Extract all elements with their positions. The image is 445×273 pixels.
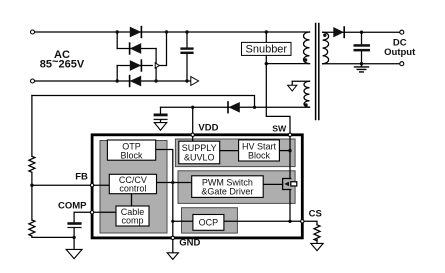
junction output cap bottom	[360, 62, 363, 65]
pin FB	[90, 184, 93, 187]
wire primary bottom	[266, 63, 309, 65]
wire secondary bottom	[323, 63, 402, 65]
wire CC/CV output to PWM	[157, 182, 192, 184]
ground VDD cap	[154, 123, 166, 131]
svg-text:COMP: COMP	[58, 201, 87, 212]
node bridge row3 connection arrow	[155, 63, 159, 68]
transistor Q1 arrow	[284, 182, 289, 187]
wire output cap bottom lead	[361, 51, 363, 63]
svg-text:OCP: OCP	[199, 218, 219, 228]
capacitor C1 bulk	[180, 47, 193, 49]
diode D6 VDD rectifier	[228, 102, 239, 113]
wire secondary top	[323, 31, 402, 33]
wire FB node down to R2	[31, 185, 33, 220]
pin COMP	[90, 211, 93, 214]
resistor R2 lower divider	[29, 220, 35, 236]
node DC output top terminal	[400, 30, 404, 34]
wire VDD pin to SUPPLY	[192, 137, 194, 142]
wire bridge left vertical bottom pair	[116, 66, 118, 82]
junction output cap top	[360, 31, 363, 34]
block PWM section panel	[178, 171, 295, 204]
wire bulk capacitor top lead	[186, 32, 188, 47]
op-amp U1 controller outline	[92, 135, 302, 238]
snubber block	[242, 42, 292, 55]
ground GND pin	[167, 253, 178, 260]
block PWM switch gate driver	[192, 176, 264, 198]
junction row4 at bulk cap	[185, 79, 188, 82]
junction COMP cap bottom	[72, 236, 75, 239]
diode D1 bridge top	[130, 27, 141, 38]
transformer T1 secondary winding	[323, 32, 329, 64]
svg-text:FB: FB	[75, 172, 88, 183]
node auxiliary ground bus arrow	[288, 85, 297, 91]
resistor R1 upper divider	[29, 156, 35, 172]
block SUPPLY UVLO	[179, 141, 220, 164]
capacitor C2 output	[354, 44, 371, 47]
junction snubber bottom / primary bottom / SW	[265, 62, 268, 65]
block cable comp	[116, 206, 149, 226]
diode D3 bridge third	[130, 60, 141, 71]
wire OCP left to internal bus	[173, 220, 193, 222]
transformer secondary polarity dot	[323, 34, 326, 37]
wire bridge row2-to-row4 vertical	[155, 49, 157, 82]
ground left divider	[66, 249, 82, 258]
ground CS resistor	[311, 243, 323, 250]
svg-text:85~265V: 85~265V	[40, 56, 85, 70]
transformer T1 auxiliary winding	[304, 81, 310, 107]
wire bulk capacitor bottom lead	[186, 54, 188, 81]
junction internal bus at OCP wire	[171, 220, 174, 223]
svg-text:control: control	[119, 184, 146, 194]
wire FB to pin	[32, 184, 90, 186]
wire R1 to FB node	[31, 173, 33, 186]
junction internal bus at CC/CV wire	[171, 181, 174, 184]
block left analog section panel	[100, 141, 167, 234]
svg-text:Output: Output	[384, 47, 416, 58]
diode D2 bridge second	[130, 43, 141, 54]
junction row1 at DC+ drop	[165, 30, 168, 33]
transformer primary polarity dot	[304, 58, 307, 61]
block labels	[119, 141, 277, 227]
wire VDD cap top lead	[160, 107, 162, 113]
svg-text:Snubber: Snubber	[246, 44, 288, 56]
node primary ground bus arrow	[191, 77, 199, 86]
wire AC top line to bridge and primary	[35, 31, 310, 33]
block OCP section panel	[182, 208, 238, 233]
svg-text:VDD: VDD	[198, 122, 218, 133]
wire bridge row2 horizontal	[117, 48, 156, 50]
transformer T1 primary winding	[304, 32, 310, 64]
capacitor C3 VDD	[154, 114, 168, 117]
wire SW net to MOSFET drain	[289, 137, 291, 179]
wire bridge row3 horizontal	[117, 65, 152, 67]
junction AC top at bridge	[116, 30, 119, 33]
pin CS	[301, 220, 304, 223]
wire AC bottom line	[35, 80, 191, 82]
svg-text:comp: comp	[121, 216, 143, 226]
svg-text:&UVLO: &UVLO	[184, 152, 215, 162]
wire FB pin inside	[92, 184, 109, 186]
junction aux line at rail	[253, 106, 256, 109]
wire OCP output to CS pin	[224, 220, 302, 222]
junction AC bottom at bridge	[116, 79, 119, 82]
block CC/CV control	[109, 174, 156, 193]
node AC input top terminal	[31, 30, 35, 34]
block HV start	[239, 140, 280, 161]
wire left divider top	[31, 96, 33, 157]
transformer core	[315, 24, 317, 120]
junction MOSFET source at OCP wire	[288, 220, 291, 223]
wire COMP pin inside	[92, 211, 116, 213]
block OCP	[193, 215, 224, 231]
wire GND pin drop	[172, 240, 174, 253]
wire auxiliary bottom line	[161, 106, 310, 108]
pin GND	[171, 236, 174, 239]
wire HV start to SW net	[279, 150, 290, 152]
wire COMP pin to cap	[74, 212, 90, 222]
svg-text:&Gate Driver: &Gate Driver	[201, 187, 253, 197]
svg-text:Block: Block	[248, 150, 271, 160]
pin SW	[288, 133, 291, 136]
wire cable comp to CC/CV	[131, 194, 133, 206]
wire output cap top lead	[361, 32, 363, 44]
wire snubber vertical	[265, 32, 267, 64]
transistor Q1 body loop	[291, 182, 297, 186]
wire CS pin to sense resistor	[305, 221, 317, 225]
wire VDD cap bottom lead	[160, 120, 162, 123]
wire PWM gate drive	[263, 183, 282, 185]
node DC output bottom terminal	[400, 62, 404, 66]
junction SW net at HV wire	[288, 149, 291, 152]
diode D4 bridge bottom	[130, 76, 141, 87]
svg-text:GND: GND	[179, 238, 200, 249]
svg-text:SW: SW	[272, 123, 287, 133]
diode D5 output rectifier	[333, 27, 344, 37]
block supply section panel	[175, 139, 295, 167]
wire feedback rail	[32, 96, 255, 108]
wire OTP output to internal bus	[156, 150, 173, 238]
block OTP	[107, 140, 155, 160]
wire SUPPLY to HV start	[220, 150, 239, 152]
wire MOSFET source to OCP wire	[289, 190, 291, 222]
junction row1 at snubber	[265, 30, 268, 33]
ground secondary earth	[355, 64, 369, 72]
wire R2 bottom to ground rail	[32, 236, 74, 239]
wire auxiliary top hook	[292, 81, 309, 85]
junction row4 at row2 vertical	[154, 79, 157, 82]
wire sense resistor to ground	[316, 239, 318, 243]
junction row1 at bulk cap	[185, 30, 188, 33]
white function boxes	[107, 140, 279, 230]
svg-text:CS: CS	[309, 209, 322, 220]
wire bridge DC+ drop from row1 to row3	[160, 32, 167, 66]
transformer auxiliary polarity dot	[304, 103, 307, 106]
wire COMP cap bottom lead	[73, 228, 75, 249]
wire SW route down to pin	[266, 64, 290, 133]
IC internal structure	[100, 139, 295, 233]
svg-text:Block: Block	[120, 151, 143, 161]
wire bridge left vertical top pair	[116, 32, 118, 49]
capacitor C4 COMP	[67, 222, 81, 225]
pin VDD	[191, 133, 194, 136]
wire VDD pin drop	[192, 107, 194, 133]
resistor R3 current sense	[314, 225, 320, 241]
node AC input bottom terminal	[31, 79, 35, 83]
junction aux line at VDD tap	[191, 106, 194, 109]
junction FB node	[30, 184, 33, 187]
transistor Q1 power MOSFET bracket	[283, 179, 291, 190]
